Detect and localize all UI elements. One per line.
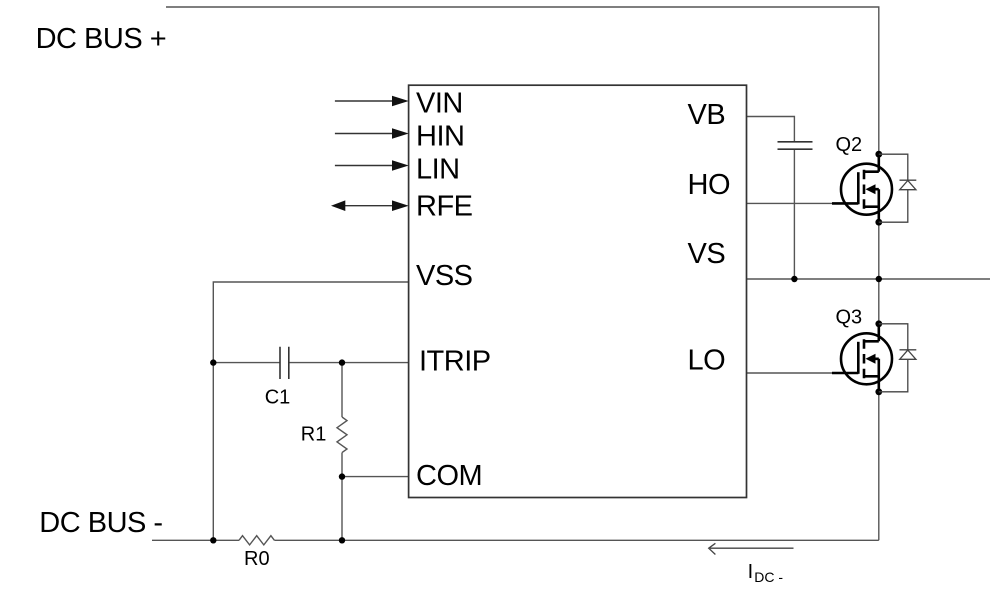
svg-text:VS: VS [688,238,726,270]
svg-text:LO: LO [688,345,726,377]
svg-text:Q3: Q3 [836,307,863,329]
svg-text:HIN: HIN [416,121,464,153]
svg-text:DC BUS +: DC BUS + [36,23,167,55]
svg-text:C1: C1 [265,387,291,409]
svg-text:ITRIP: ITRIP [419,346,491,378]
svg-text:Q2: Q2 [836,134,863,156]
svg-text:VB: VB [688,99,726,131]
svg-text:VIN: VIN [416,88,463,120]
svg-text:RFE: RFE [416,191,473,223]
svg-text:R1: R1 [301,423,327,445]
svg-text:HO: HO [688,169,731,201]
svg-text:VSS: VSS [416,260,473,292]
svg-text:I: I [748,561,754,583]
svg-text:COM: COM [416,460,482,492]
svg-text:DC -: DC - [754,569,783,585]
svg-text:LIN: LIN [416,154,460,186]
svg-text:R0: R0 [244,548,270,570]
svg-text:DC BUS -: DC BUS - [39,507,162,539]
